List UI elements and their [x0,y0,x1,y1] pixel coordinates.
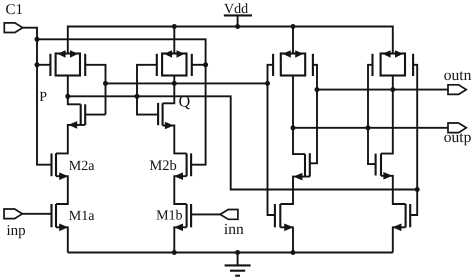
svg-text:inp: inp [7,223,26,239]
svg-text:inn: inn [224,221,244,238]
svg-text:Q: Q [179,94,191,111]
svg-text:M1a: M1a [69,209,95,224]
svg-text:Vdd: Vdd [224,2,248,17]
svg-text:M2a: M2a [69,159,95,174]
svg-text:C1: C1 [6,2,24,18]
svg-text:M2b: M2b [149,158,176,174]
svg-text:outn: outn [444,67,472,84]
svg-text:M1b: M1b [156,209,182,224]
svg-text:outp: outp [444,129,472,146]
svg-text:P: P [39,90,47,105]
